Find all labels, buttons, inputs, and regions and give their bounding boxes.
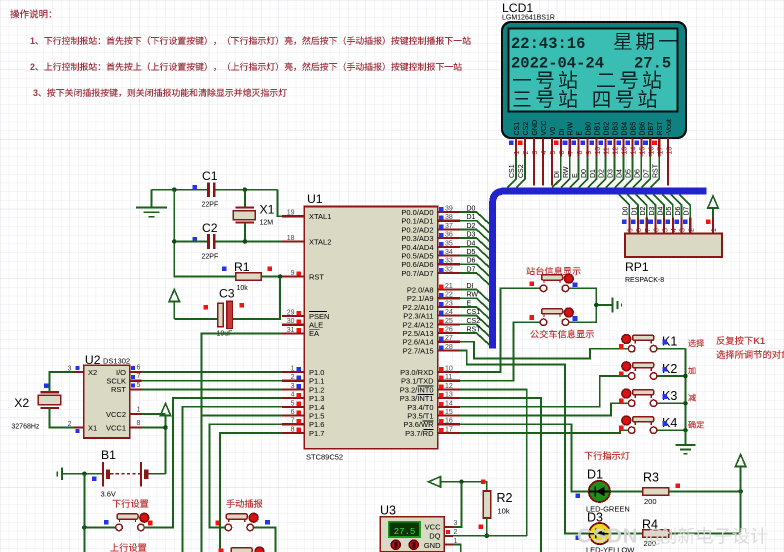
- svg-text:6: 6: [559, 151, 566, 155]
- R3 label: [643, 471, 659, 485]
- ground right of display buttons: [613, 298, 622, 313]
- U2 pin state squares: [76, 366, 135, 433]
- X2 label: [14, 396, 29, 410]
- svg-text:32768Hz: 32768Hz: [11, 424, 40, 431]
- wire X2 top to U2.3: [50, 372, 74, 392]
- svg-text:3: 3: [454, 520, 458, 527]
- wire R4 to rail: [669, 533, 741, 535]
- wire U1 P0.1 to bus: [460, 221, 490, 233]
- svg-text:18: 18: [287, 235, 295, 242]
- wire U3 VCC up: [453, 482, 462, 527]
- wire LCD pin 11 (D2) to bus: [597, 157, 606, 188]
- wire U1 P2.0 to bus: [460, 290, 490, 302]
- svg-text:35: 35: [445, 240, 453, 247]
- D1 label: [587, 468, 603, 482]
- svg-text:D0: D0: [623, 206, 630, 215]
- wire U2 VCC2: [142, 413, 166, 415]
- net label D0: [467, 206, 476, 213]
- svg-text:200: 200: [644, 497, 657, 506]
- wire R2 bottom: [486, 518, 488, 536]
- wire U1 P2.5 to bus: [460, 333, 490, 345]
- capacitor C1 label: [202, 169, 218, 183]
- svg-text:D1: D1: [587, 468, 603, 482]
- svg-text:RP1: RP1: [625, 260, 649, 274]
- wire LCD pin 17 (RST) to bus: [651, 157, 660, 188]
- ground left of B1: [57, 468, 62, 481]
- net label D3: [467, 232, 476, 239]
- svg-text:21: 21: [445, 283, 453, 290]
- push button K1: [622, 335, 657, 352]
- svg-text:VCC: VCC: [541, 121, 548, 136]
- D1 state square: [576, 493, 581, 498]
- wire LCD pin 6 (DI) to bus: [552, 157, 561, 188]
- svg-text:3: 3: [291, 383, 295, 390]
- wire bus to RP1 pin 7 (D2): [636, 194, 647, 217]
- power terminal above U2 VCC2: [160, 404, 170, 416]
- svg-text:D7: D7: [467, 266, 476, 273]
- svg-text:17: 17: [445, 426, 453, 433]
- push button K2: [622, 362, 657, 379]
- svg-text:10k: 10k: [237, 285, 249, 292]
- wire X2 bottom to U2.2: [50, 408, 74, 428]
- R3 value 200: [644, 497, 657, 506]
- wire K1 right: [657, 348, 686, 350]
- svg-text:RESPACK-8: RESPACK-8: [625, 277, 664, 284]
- net label D4: [617, 169, 624, 178]
- svg-text:RST: RST: [657, 121, 664, 136]
- svg-text:10: 10: [445, 366, 453, 373]
- RP1 pin state squares: [622, 220, 710, 225]
- wire bus to RP1 pin 2 (D7): [680, 194, 691, 217]
- X2 value 32768Hz: [11, 424, 40, 431]
- svg-text:RST: RST: [467, 327, 482, 334]
- svg-text:P3.2/INT0: P3.2/INT0: [400, 385, 434, 394]
- resistor R1: [236, 273, 262, 280]
- ground: [136, 190, 167, 217]
- wire D1 to R3: [610, 490, 643, 492]
- svg-text:RST: RST: [309, 272, 324, 281]
- svg-text:D6: D6: [675, 206, 682, 215]
- svg-text:1: 1: [137, 407, 141, 414]
- svg-text:C1: C1: [202, 169, 218, 183]
- wire bus to RP1 pin 6 (D3): [645, 194, 656, 217]
- svg-text:P1.2: P1.2: [309, 385, 324, 394]
- wire VCC rail: [165, 415, 167, 474]
- svg-text:R1: R1: [234, 260, 250, 274]
- svg-text:7: 7: [568, 151, 575, 155]
- node R2-DQ junction: [485, 534, 490, 539]
- wire R3 to VCC rail: [669, 490, 741, 492]
- wire X1 top: [244, 190, 246, 207]
- R4 label: [642, 518, 658, 532]
- svg-text:4: 4: [671, 228, 678, 232]
- bus LCD data/control bus: [493, 191, 707, 349]
- text label 公交车信息显示: [530, 330, 593, 339]
- wire U1 P0.6 to bus: [460, 264, 490, 276]
- svg-text:D7: D7: [684, 206, 691, 215]
- net label D2: [640, 206, 647, 215]
- wire bus to RP1 pin 4 (D5): [662, 194, 673, 217]
- svg-text:DI: DI: [467, 283, 474, 290]
- U3 GND pin: [444, 544, 453, 546]
- svg-text:ALE: ALE: [309, 321, 323, 330]
- net label D4: [658, 206, 665, 215]
- wire U1 P0.7 to bus: [460, 273, 490, 285]
- net label CS2: [467, 318, 481, 325]
- svg-text:16: 16: [445, 418, 453, 425]
- svg-text:DB6: DB6: [639, 122, 646, 136]
- svg-text:C2: C2: [202, 221, 218, 235]
- svg-text:2: 2: [30, 62, 35, 72]
- svg-text:CS1: CS1: [509, 164, 516, 178]
- net label D7: [684, 206, 691, 215]
- svg-text:CS2: CS2: [467, 318, 481, 325]
- svg-text:27.5: 27.5: [634, 55, 671, 73]
- X2 state square: [44, 383, 49, 388]
- text label 上行设置: [110, 543, 146, 552]
- svg-text:X2: X2: [14, 396, 29, 410]
- svg-text:P1.7: P1.7: [309, 429, 324, 438]
- svg-text:1: 1: [711, 228, 718, 232]
- svg-text:RST: RST: [111, 385, 126, 394]
- svg-text:DB5: DB5: [630, 122, 637, 136]
- svg-text:I/O: I/O: [116, 368, 126, 377]
- wire ground to B1: [62, 473, 102, 475]
- text label 确定: [688, 421, 704, 429]
- op-amp U1 body (STC89C52 MCU): [304, 207, 437, 449]
- 站台信息显示 state squares: [529, 281, 577, 287]
- net label D0: [581, 169, 588, 178]
- wire K buttons to ground: [685, 349, 687, 445]
- svg-text:3: 3: [680, 228, 687, 232]
- svg-text:X1: X1: [260, 203, 275, 217]
- net label D1: [590, 169, 597, 178]
- svg-text:6: 6: [654, 228, 661, 232]
- svg-text:CSDN @: CSDN @: [577, 525, 666, 548]
- svg-text:D5: D5: [626, 169, 633, 178]
- wire 手动插报 to P1.6: [210, 424, 282, 527]
- text label 下行指示灯: [585, 451, 630, 460]
- node C1-GND junction: [172, 187, 177, 192]
- wire U1 P2.3 to bus: [460, 316, 490, 328]
- wire U1 P2.6 to K1: [460, 342, 628, 359]
- svg-text:P0.0/AD0: P0.0/AD0: [401, 208, 433, 217]
- svg-text:D6: D6: [635, 169, 642, 178]
- svg-text:12: 12: [445, 383, 453, 390]
- svg-text:STC89C52: STC89C52: [306, 453, 343, 462]
- wire U1 P3.0 to button: [460, 288, 540, 372]
- svg-text:22PF: 22PF: [202, 254, 219, 261]
- U1 part number STC89C52: [306, 453, 343, 462]
- push button K4: [622, 416, 657, 433]
- D3 label: [587, 511, 603, 525]
- svg-text:5: 5: [137, 382, 141, 389]
- wire K3 right: [657, 402, 686, 404]
- svg-text:13: 13: [622, 147, 629, 155]
- wire U1 P2.4 to bus: [460, 324, 490, 336]
- LCD1 pin name labels: [514, 119, 673, 135]
- resistor R3: [643, 488, 669, 495]
- svg-text:P0.6/AD6: P0.6/AD6: [401, 260, 433, 269]
- svg-text:P3.0/RXD: P3.0/RXD: [400, 368, 434, 377]
- net label E: [572, 173, 579, 178]
- wire LCD pin 16 (D7) to bus: [642, 157, 651, 188]
- svg-text:E: E: [577, 131, 584, 136]
- svg-text:37: 37: [445, 223, 453, 230]
- push button 关闭插报 (partial): [219, 547, 264, 552]
- svg-text:3: 3: [532, 151, 539, 155]
- svg-text:XTAL2: XTAL2: [309, 237, 331, 246]
- C1 value 22PF: [202, 202, 219, 209]
- push button 站台信息显示: [540, 274, 573, 291]
- R3 state square: [676, 483, 681, 488]
- U2 part number DS1302: [103, 357, 130, 366]
- push button 公交车信息显示: [540, 308, 573, 325]
- K2 label: [662, 362, 677, 376]
- text label 减: [688, 394, 696, 402]
- svg-text:P1.1: P1.1: [309, 377, 324, 386]
- svg-text:7: 7: [645, 228, 652, 232]
- svg-text:LCD1: LCD1: [502, 1, 533, 15]
- wire U1 P3.1 to button: [460, 322, 540, 381]
- net label D6: [467, 258, 476, 265]
- U1 left pin state squares: [297, 271, 301, 432]
- U1 right pin numbers: [445, 206, 453, 434]
- LED D1 (green): [589, 481, 610, 502]
- net label D2: [467, 223, 476, 230]
- wire LCD pin 2 (CS2) to bus: [516, 157, 525, 188]
- svg-text:11: 11: [604, 147, 611, 154]
- node X1 top junction: [243, 187, 248, 192]
- power terminal at RP1 pin 1: [708, 196, 718, 218]
- wire left rail to 下行设置: [84, 526, 115, 528]
- net label RST: [652, 163, 659, 178]
- net label D3: [649, 206, 656, 215]
- C1 state square: [193, 185, 198, 190]
- net label D1: [467, 214, 476, 221]
- crystal X2: [38, 392, 60, 408]
- wire K4 right: [657, 429, 686, 431]
- wire LCD pin 12 (D3) to bus: [606, 157, 615, 188]
- wire U2 RST to P1.2: [142, 388, 283, 390]
- svg-text:VCC2: VCC2: [106, 410, 126, 419]
- svg-text:8: 8: [577, 151, 584, 155]
- svg-text:C3: C3: [219, 287, 235, 301]
- wire bus to RP1 pin 3 (D6): [671, 194, 682, 217]
- wire U1 P3.2 to DS18B20 DQ: [460, 389, 527, 535]
- svg-text:10k: 10k: [498, 507, 510, 516]
- svg-text:P1.3: P1.3: [309, 394, 324, 403]
- wire 手动插报 right down: [254, 527, 276, 552]
- node K3 junction: [683, 401, 688, 406]
- node C2-rail junction: [172, 239, 177, 244]
- svg-text:P2.7/A15: P2.7/A15: [403, 346, 434, 355]
- net label RST: [467, 327, 482, 334]
- X1 value 12M: [260, 220, 274, 227]
- svg-text:P3.7/RD: P3.7/RD: [405, 429, 434, 438]
- R2 state square bottom: [479, 525, 484, 530]
- svg-text:8: 8: [636, 228, 643, 232]
- text note line 1: [30, 36, 471, 46]
- svg-text:P3.4/T0: P3.4/T0: [407, 403, 433, 412]
- wire U1 P3.4 to K2: [460, 376, 628, 407]
- C3 state square right: [240, 303, 245, 308]
- svg-text:33: 33: [445, 258, 453, 265]
- D1 value LED-GREEN: [586, 505, 630, 514]
- svg-text:8: 8: [137, 420, 141, 427]
- svg-text:CS2: CS2: [523, 122, 530, 136]
- svg-text:27.5: 27.5: [394, 527, 416, 537]
- net label D7: [644, 169, 651, 178]
- svg-text:RW: RW: [563, 166, 570, 178]
- RP1 pin numbers: [628, 228, 719, 232]
- text note line 3: [33, 88, 287, 98]
- LED D3 (yellow): [589, 523, 610, 544]
- svg-text:D4: D4: [467, 240, 476, 247]
- power terminal left arrow: [429, 477, 441, 487]
- svg-text:P3.1/TXD: P3.1/TXD: [401, 377, 434, 386]
- net label D5: [626, 169, 633, 178]
- X1 label: [260, 203, 275, 217]
- node R1-RST junction: [278, 274, 283, 279]
- K1 label: [662, 335, 677, 349]
- capacitor C1: [207, 182, 216, 197]
- wire C2 left: [174, 241, 207, 243]
- U3 pin numbers: [454, 520, 458, 545]
- K4 label: [662, 416, 677, 430]
- wire right VCC rail: [740, 466, 742, 534]
- svg-text:1: 1: [514, 151, 521, 155]
- R4 value 200: [644, 539, 657, 548]
- text label 下行设置: [113, 499, 149, 508]
- svg-text:U1: U1: [307, 192, 323, 206]
- C3 value 10uF: [217, 331, 233, 338]
- svg-text:2022-04-24: 2022-04-24: [511, 55, 604, 73]
- svg-text:D3: D3: [467, 232, 476, 239]
- net label CS1: [467, 309, 481, 316]
- svg-text:P0.2/AD2: P0.2/AD2: [401, 225, 433, 234]
- LCD1 pin state squares: [509, 141, 657, 146]
- wire LCD pin 10 (D1) to bus: [588, 157, 597, 188]
- wire RST to C3: [232, 277, 280, 320]
- svg-text:6: 6: [137, 365, 141, 372]
- svg-text:P0.3/AD3: P0.3/AD3: [401, 234, 433, 243]
- svg-text:31: 31: [287, 327, 295, 334]
- svg-text:8: 8: [291, 426, 295, 433]
- wire D3 to R4: [610, 533, 643, 535]
- svg-text:P2.3/A11: P2.3/A11: [403, 312, 433, 321]
- power terminal right rail: [735, 455, 745, 467]
- capacitor C3 label: [219, 287, 235, 301]
- wire LCD pin 9 (D0) to bus: [579, 157, 588, 188]
- svg-text:11: 11: [445, 374, 452, 381]
- text label 加: [688, 367, 695, 374]
- capacitor C3 (electrolytic): [218, 301, 233, 328]
- svg-text:P3.5/T1: P3.5/T1: [407, 412, 433, 421]
- net label DI: [554, 171, 561, 178]
- push button 手动插报: [225, 513, 258, 530]
- wire C2 to XTAL2: [216, 241, 282, 243]
- capacitor C2 label: [202, 221, 218, 235]
- U3 indicator circles: [391, 540, 418, 549]
- wire bus to RP1 pin 9 (D0): [619, 194, 630, 217]
- watermark CSDN @创新电子设计: [577, 525, 767, 548]
- push button K3: [622, 389, 657, 406]
- wire LCD pin 7 (RW) to bus: [561, 157, 570, 188]
- net label D3: [608, 169, 615, 178]
- svg-text:9: 9: [291, 270, 295, 277]
- node VCC1 junction: [163, 425, 168, 430]
- svg-text:D2: D2: [599, 169, 606, 178]
- 公交车信息显示 state squares: [529, 315, 577, 321]
- U1 right pins: [438, 212, 460, 433]
- svg-text:P0.4/AD4: P0.4/AD4: [401, 243, 433, 252]
- svg-text:DI: DI: [554, 171, 561, 178]
- K3 state squares: [619, 394, 667, 403]
- svg-text:25: 25: [445, 318, 453, 325]
- U3 DQ state square: [446, 530, 450, 534]
- wire LCD pin 15 (D6) to bus: [633, 157, 642, 188]
- svg-text:22: 22: [445, 292, 453, 299]
- K2 state squares: [619, 367, 667, 376]
- svg-text:VCC: VCC: [425, 523, 441, 532]
- svg-text:9: 9: [628, 228, 635, 232]
- wire U2 VCC1: [142, 427, 166, 429]
- wire bus to RP1 pin 8 (D1): [627, 194, 638, 217]
- svg-text:13: 13: [445, 392, 453, 399]
- svg-text:P1.4: P1.4: [309, 403, 324, 412]
- svg-text:12: 12: [613, 147, 620, 155]
- U1 label: [307, 192, 323, 206]
- U3 DQ pin: [444, 535, 453, 537]
- wire U1 P3.6 to D1: [460, 424, 589, 491]
- node K4 junction: [683, 428, 688, 433]
- wire LCD pin 1 (CS1) to bus: [507, 157, 516, 188]
- svg-text:5: 5: [291, 400, 295, 407]
- K1 state squares: [619, 340, 667, 349]
- wire U1 P2.1 to bus: [460, 298, 490, 310]
- node B1 junction: [82, 472, 87, 477]
- svg-text:15: 15: [445, 409, 453, 416]
- resistor R1 label: [234, 260, 250, 274]
- push button 下行设置: [116, 513, 149, 530]
- svg-text:P2.6/A14: P2.6/A14: [403, 338, 434, 347]
- net label D6: [675, 206, 682, 215]
- wire K2 right: [657, 375, 686, 377]
- svg-text:22PF: 22PF: [202, 202, 219, 209]
- svg-text:R2: R2: [497, 491, 513, 505]
- U3 label: [380, 504, 396, 518]
- wire LCD pin 8 (E) to bus: [570, 157, 579, 188]
- svg-text:XTAL1: XTAL1: [309, 212, 331, 221]
- svg-text:DB0: DB0: [586, 122, 593, 136]
- svg-text:P2.1/A9: P2.1/A9: [407, 294, 434, 303]
- net label D0: [623, 206, 630, 215]
- svg-text:DB2: DB2: [604, 122, 611, 136]
- wire U1 P0.0 to bus: [460, 212, 490, 224]
- net label CS1: [509, 164, 516, 178]
- svg-text:19: 19: [287, 210, 295, 217]
- LCD LCD1 label: [502, 1, 533, 15]
- svg-text:24: 24: [445, 309, 453, 316]
- text note line 2: [30, 62, 462, 72]
- wire U1 P0.3 to bus: [460, 238, 490, 250]
- svg-text:14: 14: [445, 400, 453, 407]
- svg-text:6: 6: [291, 409, 295, 416]
- U2 left pins: [74, 372, 84, 428]
- svg-text:X2: X2: [88, 368, 97, 377]
- svg-text:D2: D2: [640, 206, 647, 215]
